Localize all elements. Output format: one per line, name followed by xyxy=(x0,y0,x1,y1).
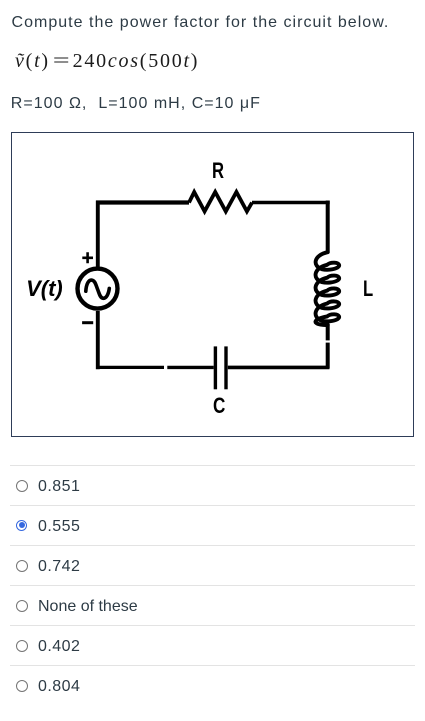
wire left vertical lower (source to bottom corner) xyxy=(96,311,100,369)
capacitor C left plate xyxy=(214,346,217,389)
wire bottom middle (gap to capacitor) xyxy=(167,366,213,369)
value label R xyxy=(212,160,224,183)
parameter values R, L, C xyxy=(11,94,261,112)
value label C xyxy=(213,395,225,418)
option 0.555 selected xyxy=(16,520,27,531)
value label L xyxy=(363,278,373,301)
wire top-right horizontal xyxy=(252,201,330,205)
wire bottom-left horizontal xyxy=(96,366,164,369)
question text xyxy=(12,13,390,31)
wire right vertical below coil (upper piece) xyxy=(326,324,330,341)
source V(t) circle xyxy=(78,269,118,309)
option None of these xyxy=(16,600,28,612)
option 0.851 xyxy=(16,480,28,492)
wire right vertical lower piece xyxy=(326,343,330,369)
equation v(t)=240cos(500t) xyxy=(15,51,199,71)
wire top-left horizontal xyxy=(96,200,189,204)
wire bottom-right horizontal (capacitor to corner) xyxy=(228,366,330,370)
circuit bounding box xyxy=(11,132,415,438)
wire left vertical upper (top corner to source) xyxy=(96,201,100,267)
option 0.402 xyxy=(16,640,28,652)
option 0.742 xyxy=(16,560,28,572)
option 0.804 xyxy=(16,680,28,692)
capacitor C right plate xyxy=(224,346,227,389)
plus polarity mark of source xyxy=(82,252,93,263)
source V(t) sine symbol xyxy=(86,280,110,298)
wire right vertical upper xyxy=(326,201,330,253)
minus polarity mark of source xyxy=(82,321,93,324)
options separators xyxy=(10,465,415,466)
value label V(t) xyxy=(26,278,63,300)
inductor L xyxy=(316,252,340,325)
resistor R xyxy=(189,192,252,211)
